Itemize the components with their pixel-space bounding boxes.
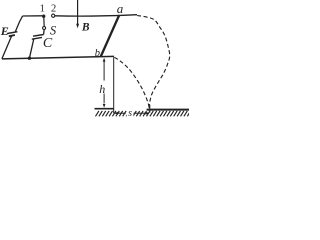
svg-text:E: E [0,24,9,38]
trajectory of bar top end (dashed) [137,15,170,108]
svg-text:1: 1 [40,4,45,15]
svg-text:2: 2 [51,4,56,15]
battery E long plate [7,32,17,34]
ground surface line right segment [147,109,189,111]
battery E short plate [9,35,15,36]
wire top rail right segment [55,15,137,16]
svg-text:s: s [128,108,132,119]
switch S pivot circle [43,27,46,30]
extension line below bar end [113,57,115,113]
h arrow head up [103,58,106,62]
svg-text:a: a [117,1,124,16]
capacitor C bottom lead [29,39,33,58]
s arrow head right [146,112,150,115]
wire top rail left segment [23,15,43,17]
wire left edge upper [15,16,22,32]
svg-text:B: B [81,21,90,33]
ground tick at landing point [149,105,151,113]
junction dot capacitor to bottom rail [28,57,31,60]
B arrow head [76,24,79,28]
trajectory of bar bottom end (dashed) [114,57,149,108]
capacitor C bottom plate [32,37,42,39]
s arrow head left [114,112,118,115]
ground surface line left segment [95,108,114,110]
dimension h line lower [103,94,105,104]
dimension s line right [134,112,149,114]
svg-text:C: C [43,36,53,51]
node 1 contact dot [42,15,45,18]
svg-text:h: h [99,82,105,96]
capacitor C top plate [33,35,44,37]
white gap for s label [127,110,134,117]
dimension h line upper [103,60,105,81]
switch S link from contact 1 [43,18,45,27]
ground hatching [96,111,191,116]
dimension s line left [115,112,126,114]
svg-text:b: b [95,48,100,59]
switch S blade to capacitor [43,30,46,35]
conducting bar ab [101,15,120,57]
wire left edge lower [2,36,12,59]
wire bottom rail [2,56,114,59]
node 2 contact circle [52,14,55,17]
magnetic field B arrow line [77,0,79,24]
h arrow head down [103,104,106,108]
